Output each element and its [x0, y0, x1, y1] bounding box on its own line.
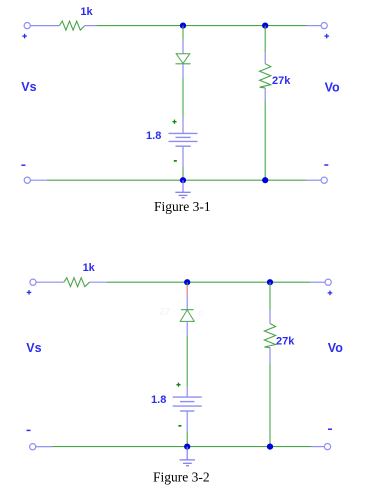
ground symbol (fig 3-1): [175, 192, 190, 197]
wire: R2 to bottom rail: [264, 101, 266, 181]
svg-text:27: 27: [159, 307, 171, 318]
minus mark at Vs- terminal: [21, 164, 25, 166]
battery V1 plus mark: [172, 120, 176, 124]
faint ghost mark right of diode: [198, 308, 203, 318]
minus mark at Vs- terminal fig2: [27, 429, 31, 431]
wire: top-right terminal pin: [307, 25, 322, 27]
resistor 27k R2 top pin (blue): [264, 52, 266, 63]
battery V2 plates fig2: [173, 397, 202, 411]
wire: bottom-right terminal pin: [307, 179, 321, 181]
svg-text:1.8: 1.8: [146, 130, 161, 142]
wire: R4 to bottom rail fig2: [269, 363, 271, 446]
junction node A (183,25.6): [180, 23, 186, 29]
battery V1 minus pin (blue): [182, 146, 184, 166]
battery V2 minus pin (blue) fig2: [186, 411, 188, 432]
wire: bottom rail fig2: [52, 446, 312, 448]
junction node B (265,25.6): [262, 23, 268, 29]
net label Vs fig2: [26, 341, 41, 355]
battery V2 plus mark fig2: [176, 383, 180, 387]
plus mark at Vo+ terminal fig2: [328, 291, 333, 296]
wire: node B down to R2: [264, 26, 266, 53]
wire: bottom-left terminal pin: [31, 179, 47, 181]
junction node G (187,446.6): [184, 444, 190, 450]
svg-text:27k: 27k: [272, 75, 291, 87]
wire: bottom rail: [47, 179, 307, 181]
battery V1 plus pin (blue): [182, 117, 184, 134]
resistor 27k R4 (vertical zigzag) fig2: [264, 324, 275, 348]
svg-text:1k: 1k: [83, 262, 96, 274]
value label 1k fig2: [83, 262, 96, 274]
wire: battery to bottom rail fig2: [186, 432, 188, 447]
ground stub (fig 3-1): [182, 180, 184, 192]
junction node E (187,282.2): [184, 279, 190, 285]
net label Vo fig2: [328, 341, 343, 355]
diode D1 cathode pin (blue): [182, 64, 184, 77]
resistor 1k R3 (horizontal zigzag) fig2: [64, 278, 90, 287]
wire: top-left terminal pin to R1: [31, 25, 60, 27]
diode D2 (pointing up) fig2: [180, 310, 194, 322]
diode D2 cathode pin (blue) fig2: [186, 296, 188, 310]
wire: diode to battery fig2: [186, 335, 188, 387]
svg-text:Figure 3-1: Figure 3-1: [154, 199, 211, 214]
svg-text:Vo: Vo: [328, 341, 343, 355]
resistor 27k R4 bottom pin (blue) fig2: [269, 348, 271, 364]
wire: top-right terminal pin fig2: [311, 281, 325, 283]
battery V2 plus pin (blue) fig2: [186, 387, 188, 397]
value label 1.8 fig2: [151, 394, 166, 406]
terminal circle top-right (Vo +) fig2: [325, 279, 331, 285]
diode D1 anode pin (blue): [182, 39, 184, 54]
battery V1 plates: [169, 133, 198, 146]
value label 1.8: [146, 130, 161, 142]
junction node H (270,446.6): [267, 444, 273, 450]
svg-text:1.8: 1.8: [151, 394, 166, 406]
battery V2 minus mark fig2: [178, 425, 181, 427]
faint ghost label left of diode: [159, 307, 171, 318]
resistor 1k R1 (horizontal zigzag): [59, 21, 85, 30]
junction node F (270,282.2): [267, 279, 273, 285]
wire: bottom-right terminal pin fig2: [311, 446, 324, 448]
minus mark at Vo- terminal: [324, 164, 328, 166]
wire: R3 right pin (blue) fig2: [90, 281, 107, 283]
plus mark at Vs+ terminal fig2: [27, 290, 32, 295]
wire: node E stub (green) fig2: [186, 282, 188, 285]
svg-text:Vs: Vs: [21, 80, 36, 94]
diode D1 (pointing down): [176, 54, 191, 64]
value label 1k: [80, 6, 93, 18]
terminal circle top-right (Vo +): [321, 23, 327, 29]
svg-text:27k: 27k: [276, 336, 295, 348]
ground symbol (fig 3-2): [180, 460, 195, 466]
battery V1 minus mark: [174, 160, 177, 162]
net label Vo: [325, 81, 340, 95]
wire: top-left terminal pin fig2: [36, 281, 63, 283]
wire: bottom-left terminal pin fig2: [36, 446, 51, 448]
terminal circle bottom-right (Vo -) fig2: [324, 444, 330, 450]
wire: node A down to diode: [182, 26, 184, 39]
caption Figure 3-2: [153, 469, 210, 484]
resistor 27k R2 (vertical zigzag): [260, 64, 271, 88]
value label 27k: [272, 75, 291, 87]
terminal circle bottom-left (Vs -): [24, 177, 30, 183]
diode D2 anode pin (blue) fig2: [186, 321, 188, 335]
resistor 27k R2 bottom pin (blue): [264, 88, 266, 101]
wire: diode to battery: [182, 77, 184, 117]
terminal circle top-left (Vs +) fig2: [30, 279, 36, 285]
resistor 27k R4 top pin (blue) fig2: [269, 310, 271, 324]
terminal circle bottom-right (Vo -): [321, 177, 327, 183]
svg-text:1k: 1k: [80, 6, 93, 18]
svg-text:Figure 3-2: Figure 3-2: [153, 469, 210, 484]
junction node D (265,180.2): [262, 177, 268, 183]
terminal circle bottom-left (Vs -) fig2: [30, 444, 36, 450]
terminal circle top-left (Vs +): [24, 23, 30, 29]
caption Figure 3-1: [154, 199, 211, 214]
ground stub (fig 3-2): [186, 447, 188, 460]
plus mark at Vs+ terminal: [22, 34, 27, 39]
wire: node F down to R4 fig2: [269, 282, 271, 310]
net label Vs: [21, 80, 36, 94]
svg-text:c: c: [198, 308, 203, 318]
svg-text:Vo: Vo: [325, 81, 340, 95]
minus mark at Vo- terminal fig2: [328, 428, 332, 430]
wire: battery to bottom rail: [182, 167, 184, 181]
svg-text:Vs: Vs: [26, 341, 41, 355]
value label 27k fig2: [276, 336, 295, 348]
plus mark at Vo+ terminal: [324, 34, 329, 39]
wire: top rail fig2: [107, 281, 311, 283]
wire: selected segment (red) above diode fig2: [186, 286, 188, 296]
wire: R1 right pin (blue): [85, 25, 97, 27]
wire: top rail to node A: [97, 25, 307, 27]
junction node C (183,180.2): [180, 177, 186, 183]
